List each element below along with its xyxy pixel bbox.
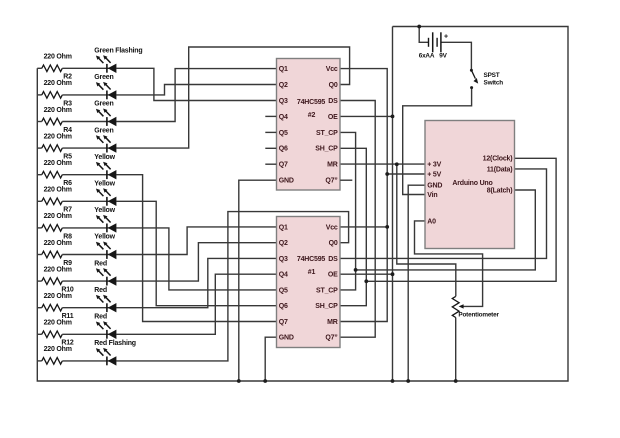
- svg-text:Red: Red: [94, 287, 107, 294]
- wire Arduino GND down to ground bus: [408, 185, 425, 381]
- junction ground drop on ground bus: [391, 379, 395, 383]
- wire 74HC595#2 GND down to ground bus: [239, 180, 276, 381]
- svg-text:Q4: Q4: [279, 114, 288, 121]
- wire Arduino 8(Latch) to ST_CP chain: [356, 190, 536, 270]
- svg-text:Q1: Q1: [279, 224, 288, 231]
- wire 74HC595#1 GND down to ground bus: [265, 337, 276, 381]
- wire row 10 middle segment: [62, 307, 116, 309]
- svg-text:DS: DS: [328, 256, 338, 263]
- junction rail with +5V line: [385, 172, 389, 176]
- wire row 6 middle segment: [62, 200, 116, 202]
- svg-text:Potentiometer: Potentiometer: [458, 312, 499, 319]
- resistor R9 220 Ohm (row 9): [42, 278, 63, 285]
- LED Red (row 9): [96, 268, 117, 286]
- shift register U1 74HC595 #1 body: [277, 217, 341, 348]
- wire row 11 left segment: [37, 333, 42, 335]
- wire row 9 left segment: [37, 280, 42, 282]
- resistor R10 220 Ohm (row 10): [42, 304, 63, 311]
- svg-text:R9: R9: [63, 260, 72, 267]
- wire: ground bus (left rail, bottom rail, right rail, top rail): [37, 27, 568, 382]
- wire row2 LED to 74HC595#2 Q2: [116, 85, 276, 95]
- wire row 6 left segment: [37, 200, 42, 202]
- svg-text:220 Ohm: 220 Ohm: [44, 240, 72, 247]
- svg-text:+ 5V: + 5V: [427, 171, 441, 178]
- svg-text:220 Ohm: 220 Ohm: [44, 346, 72, 353]
- wire row 8 left segment: [37, 254, 42, 256]
- svg-text:R2: R2: [63, 74, 72, 81]
- svg-text:R4: R4: [63, 127, 72, 134]
- svg-text:R3: R3: [63, 100, 72, 107]
- svg-text:Vcc: Vcc: [326, 66, 338, 73]
- wire switch to Arduino Vin: [403, 89, 472, 195]
- svg-text:220 Ohm: 220 Ohm: [44, 80, 72, 87]
- wire row10 LED to 74HC595#1 Q3: [116, 258, 276, 307]
- svg-text:Q2: Q2: [279, 240, 288, 247]
- svg-text:Q6: Q6: [279, 303, 288, 310]
- svg-text:220 Ohm: 220 Ohm: [44, 54, 72, 61]
- LED Yellow (row 5): [96, 162, 117, 180]
- svg-text:Q7: Q7: [279, 162, 288, 169]
- wire row8 LED to 74HC595#1 Q1: [116, 227, 276, 255]
- wire potentiometer bottom to ground bus: [455, 318, 457, 382]
- junction OE#1 tee on ground drop: [391, 272, 395, 276]
- junction battery tap on top bus: [417, 25, 421, 29]
- svg-text:Red: Red: [94, 260, 107, 267]
- svg-text:SH_CP: SH_CP: [315, 303, 338, 310]
- svg-text:R11: R11: [62, 313, 74, 320]
- wire 74HC595#1 OE tee: [340, 273, 392, 275]
- resistor R12 220 Ohm (row 12): [42, 358, 63, 365]
- svg-text:GND: GND: [427, 183, 442, 190]
- junction 74HC595#1 GND on ground bus: [263, 379, 267, 383]
- svg-text:OE: OE: [328, 272, 338, 279]
- svg-text:220 Ohm: 220 Ohm: [44, 133, 72, 140]
- wire row 3 left segment: [37, 121, 42, 123]
- LED Yellow (row 6): [96, 188, 117, 206]
- svg-text:8(Latch): 8(Latch): [487, 187, 513, 194]
- svg-text:A0: A0: [427, 218, 436, 225]
- resistor R6 220 Ohm (row 6): [42, 198, 63, 205]
- svg-text:R10: R10: [61, 287, 74, 294]
- wire row 2 middle segment: [62, 94, 116, 96]
- svg-text:Green Flashing: Green Flashing: [94, 48, 142, 55]
- svg-text:GND: GND: [279, 178, 294, 185]
- battery 6xAA 9V plates: [429, 32, 441, 52]
- svg-text:Q0: Q0: [329, 240, 338, 247]
- wire row 8 middle segment: [62, 254, 116, 256]
- junction Arduino GND on ground bus: [406, 379, 410, 383]
- op-amp substitute: shift register U2 74HC595 #2 body: [277, 59, 341, 191]
- resistor R8 220 Ohm (row 8): [42, 251, 63, 258]
- junction latch line with ST_CP chain: [354, 268, 358, 272]
- LED Green (row 2): [96, 82, 117, 100]
- LED Green Flashing (row 1): [96, 55, 117, 73]
- resistor R1 220 Ohm (row 1): [42, 65, 63, 72]
- resistor R5 220 Ohm (row 5): [42, 171, 63, 178]
- svg-text:11(Data): 11(Data): [487, 166, 513, 173]
- svg-text:Q0: Q0: [329, 82, 338, 89]
- svg-text:+ 3V: + 3V: [427, 161, 441, 168]
- junction clock line with SH_CP chain: [364, 279, 368, 283]
- svg-text:Green: Green: [94, 74, 113, 81]
- LED Green (row 3): [96, 109, 117, 127]
- svg-text:R6: R6: [63, 180, 72, 187]
- svg-text:R7: R7: [63, 207, 72, 214]
- SPST switch blade with arrowhead: [471, 70, 475, 78]
- svg-text:74HC595: 74HC595: [297, 256, 325, 263]
- junction pot feed tee on MR#2/+3V line: [395, 162, 399, 166]
- svg-text:Red Flashing: Red Flashing: [94, 340, 136, 347]
- svg-text:R8: R8: [63, 233, 72, 240]
- svg-text:Q6: Q6: [279, 146, 288, 153]
- wire 74HC595#1 Vcc to rail: [340, 226, 387, 228]
- svg-text:#1: #1: [308, 269, 316, 276]
- wire row5 LED to 74HC595#1 Q7: [116, 175, 276, 322]
- wire row 12 left segment: [37, 360, 42, 362]
- wire Arduino 12(Clock) to SH_CP chain: [366, 158, 556, 281]
- svg-text:DS: DS: [328, 98, 338, 105]
- wire row 11 middle segment: [62, 333, 116, 335]
- junction OE#2 tee on ground drop: [391, 115, 395, 119]
- wire: ground drop from top bus through OE tees to ground bus: [392, 27, 394, 382]
- svg-text:Q5: Q5: [279, 130, 288, 137]
- svg-text:Vin: Vin: [427, 192, 437, 199]
- pin stub Q7&quot; U2 (unconnected): [340, 179, 352, 181]
- wire row 5 left segment: [37, 174, 42, 176]
- wire row 2 left segment: [37, 94, 42, 96]
- potentiometer body (vertical zigzag): [452, 296, 459, 317]
- svg-text:SPST: SPST: [484, 72, 500, 79]
- wire row9 LED to 74HC595#1 Q2: [116, 243, 276, 281]
- wire row11 LED to 74HC595#1 Q4: [116, 274, 276, 334]
- svg-text:MR: MR: [327, 162, 338, 169]
- svg-text:+: +: [444, 34, 448, 41]
- wire SH_CP chain (chip2 to chip1): [340, 148, 366, 305]
- svg-text:MR: MR: [327, 319, 338, 326]
- LED Red (row 10): [96, 295, 117, 313]
- svg-text:220 Ohm: 220 Ohm: [44, 266, 72, 273]
- wire row1 LED to 74HC595#2 Q3: [116, 68, 276, 100]
- wire battery negative to top bus: [419, 27, 428, 43]
- svg-text:R5: R5: [63, 154, 72, 161]
- junction 74HC595#2 GND on ground bus: [237, 379, 241, 383]
- svg-text:220 Ohm: 220 Ohm: [44, 160, 72, 167]
- svg-text:Yellow: Yellow: [94, 234, 115, 241]
- Arduino Uno body: [425, 121, 515, 249]
- LED Yellow (row 8): [96, 242, 117, 260]
- svg-text:Vcc: Vcc: [326, 224, 338, 231]
- potentiometer wiper arrowhead: [459, 304, 464, 308]
- wire row 1 middle segment: [62, 67, 116, 69]
- wire row 10 left segment: [37, 307, 42, 309]
- pin stub Q7 U2 (unconnected): [265, 163, 276, 165]
- svg-text:SH_CP: SH_CP: [315, 146, 338, 153]
- wire ST_CP chain (chip2 to chip1): [340, 132, 355, 290]
- svg-text:6xAA: 6xAA: [419, 53, 435, 60]
- svg-text:ST_CP: ST_CP: [316, 130, 338, 137]
- resistor R3 220 Ohm (row 3): [42, 118, 63, 125]
- svg-text:12(Clock): 12(Clock): [483, 156, 513, 163]
- wire 74HC595#2 Vcc to 5V rail, rail down to 74HC595#1 MR: [340, 69, 387, 322]
- svg-text:Yellow: Yellow: [94, 207, 115, 214]
- pin stub Q5 U2 (unconnected): [265, 131, 276, 133]
- svg-text:74HC595: 74HC595: [297, 99, 325, 106]
- wire row 4 left segment: [37, 147, 42, 149]
- svg-text:220 Ohm: 220 Ohm: [44, 320, 72, 327]
- wire row12 LED to 74HC595#1 Q0 (over top of chip): [116, 212, 348, 361]
- svg-text:220 Ohm: 220 Ohm: [44, 107, 72, 114]
- svg-text:Red: Red: [94, 314, 107, 321]
- pin stub Q6 U2 (unconnected): [265, 147, 276, 149]
- wire Arduino A0 to potentiometer wiper: [415, 221, 483, 307]
- svg-text:Yellow: Yellow: [94, 154, 115, 161]
- svg-text:Q1: Q1: [279, 66, 288, 73]
- wire row 9 middle segment: [62, 280, 116, 282]
- wire row6 LED to 74HC595#1 Q6: [116, 201, 276, 305]
- svg-text:Q5: Q5: [279, 287, 288, 294]
- svg-text:Q3: Q3: [279, 98, 288, 105]
- wire 74HC595#2 DS to 74HC595#1 Q7&quot; (cascade): [340, 101, 375, 338]
- junction rail with Vcc#1 line: [385, 225, 389, 229]
- svg-text:#2: #2: [308, 112, 316, 119]
- resistor R7 220 Ohm (row 7): [42, 225, 63, 232]
- svg-text:R12: R12: [61, 340, 74, 347]
- svg-text:Switch: Switch: [484, 80, 504, 87]
- pin stub Q4 U2 (unconnected): [265, 115, 276, 117]
- svg-text:9V: 9V: [439, 53, 447, 60]
- LED Yellow (row 7): [96, 215, 117, 233]
- svg-text:Q7: Q7: [279, 319, 288, 326]
- svg-text:Q2: Q2: [279, 82, 288, 89]
- wire row4 LED to 74HC595#2 Q0 (over top of chip): [116, 47, 349, 148]
- wire row 3 middle segment: [62, 121, 116, 123]
- wire row 7 left segment: [37, 227, 42, 229]
- svg-text:220 Ohm: 220 Ohm: [44, 293, 72, 300]
- resistor R4 220 Ohm (row 4): [42, 145, 63, 152]
- svg-text:Yellow: Yellow: [94, 181, 115, 188]
- SPST switch contacts: [470, 69, 473, 72]
- wire row 12 middle segment: [62, 360, 116, 362]
- wire battery positive to switch: [441, 42, 472, 69]
- svg-text:Green: Green: [94, 101, 113, 108]
- svg-text:Q4: Q4: [279, 272, 288, 279]
- wire: MR#2/+3V net drop to potentiometer top: [397, 164, 456, 296]
- svg-text:Green: Green: [94, 127, 113, 134]
- svg-text:Q7”: Q7”: [325, 335, 337, 342]
- wire row7 LED to 74HC595#1 Q5: [116, 228, 276, 290]
- svg-text:GND: GND: [279, 335, 294, 342]
- wire Arduino 11(Data) to 74HC595#1 DS: [340, 169, 546, 259]
- wire row 1 left segment: [37, 67, 42, 69]
- wire 74HC595#2 MR / Arduino +3V line: [340, 163, 425, 165]
- svg-text:Arduino Uno: Arduino Uno: [452, 180, 492, 187]
- svg-text:OE: OE: [328, 114, 338, 121]
- wire row 7 middle segment: [62, 227, 116, 229]
- svg-text:220 Ohm: 220 Ohm: [44, 187, 72, 194]
- LED Green (row 4): [96, 135, 117, 153]
- wire row 5 middle segment: [62, 174, 116, 176]
- svg-text:220 Ohm: 220 Ohm: [44, 213, 72, 220]
- junction potentiometer on ground bus: [454, 379, 458, 383]
- resistor R2 220 Ohm (row 2): [42, 92, 63, 99]
- svg-text:Q3: Q3: [279, 256, 288, 263]
- svg-text:ST_CP: ST_CP: [316, 287, 338, 294]
- wire row3 LED to 74HC595#2 Q1: [116, 69, 276, 122]
- resistor R11 220 Ohm (row 11): [42, 331, 63, 338]
- svg-text:Q7”: Q7”: [325, 178, 337, 185]
- wire row 4 middle segment: [62, 147, 116, 149]
- LED Red Flashing (row 12): [96, 348, 117, 366]
- wire Arduino +5V to rail: [387, 173, 425, 175]
- wire 74HC595#2 OE to ground drop: [340, 115, 392, 117]
- LED Red (row 11): [96, 321, 117, 339]
